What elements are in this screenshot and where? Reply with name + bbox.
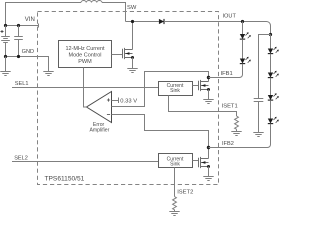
svg-text:TPS61150/51: TPS61150/51 [45, 175, 85, 182]
wire: PWM output to power FET gate [112, 54, 123, 56]
ground: FET1 [203, 100, 213, 104]
svg-text:PWM: PWM [78, 59, 92, 65]
wire: resistor2 to ground [174, 210, 176, 212]
svg-text:SEL2: SEL2 [14, 155, 28, 161]
LED D5 [268, 93, 279, 100]
capacitor C_in [14, 26, 23, 57]
svg-text:12-MHz Current: 12-MHz Current [65, 46, 105, 52]
node: IFB1 junction dot [207, 76, 210, 79]
LED D1 [240, 32, 251, 39]
wire: diode to IOUT and LED strings [164, 22, 271, 35]
svg-text:IFB2: IFB2 [222, 141, 234, 147]
0.33 V reference stub and tick [112, 98, 119, 104]
node: VIN junction dots [4, 24, 7, 27]
node: IFB2 junction dot [207, 146, 210, 149]
node: right branch tap [269, 33, 272, 36]
wire: FET2 source to ground [208, 167, 210, 177]
wire: FET2 drain to IFB2 [208, 148, 210, 159]
wire: ISET1 from sink1 [169, 96, 237, 117]
svg-text:Amplifier: Amplifier [89, 128, 109, 134]
node: power FET source/body dot [131, 56, 134, 59]
wire: resistor1 to ground [236, 129, 238, 131]
wire: sink2 to FET gate [193, 160, 199, 162]
resistor R_SET2 [173, 197, 177, 210]
current sink 1 block [159, 82, 193, 96]
svg-text:Sink: Sink [170, 161, 180, 167]
wire: GND rail [6, 57, 49, 72]
plus input mark [107, 98, 110, 101]
node: left LED string tap [241, 20, 244, 23]
ground: output capacitor [253, 133, 263, 137]
ground: power FET [127, 69, 137, 73]
wire: power FET drain to SW node [132, 22, 134, 50]
wire D5-D6 [270, 100, 272, 118]
svg-text:SW: SW [127, 5, 137, 11]
wire: inductor to SW pin [102, 3, 126, 22]
wire: SW to diode [126, 21, 159, 23]
wire: D2 to IFB1 line [209, 64, 243, 78]
battery plus sign [1, 30, 4, 33]
svg-text:ISET2: ISET2 [177, 190, 193, 196]
svg-text:ISET1: ISET1 [222, 103, 238, 109]
wire: ISET2 from sink2 [174, 168, 176, 197]
ground: R_SET2 [169, 212, 179, 216]
svg-text:Mode Control: Mode Control [68, 53, 101, 59]
svg-text:SEL1: SEL1 [15, 81, 29, 87]
IC boundary TPS61150/51 (dashed) [38, 12, 219, 185]
wire: IFB1 to chip edge [209, 77, 240, 79]
LED D4 [268, 71, 279, 78]
ground: chip internal GND [43, 72, 53, 76]
wire: error amp input from IFB1 node [112, 72, 209, 107]
wire between D1 and D2 [242, 39, 244, 58]
wire: D6 to IFB2 line [209, 124, 271, 148]
LED D3 [268, 47, 279, 54]
schottky diode (internal rectifier) [159, 19, 164, 24]
wire: error amp output to PWM [84, 68, 87, 108]
wire: battery top to top rail [6, 3, 82, 26]
node: FET1 source dot [207, 88, 210, 91]
wire: SEL1 line [12, 87, 159, 89]
wire: output capacitor branch [259, 35, 271, 99]
svg-text:IOUT: IOUT [223, 14, 237, 20]
ground: battery [0, 72, 10, 76]
resistor R_SET1 [235, 116, 239, 129]
wire: left LED string top [242, 22, 244, 35]
ground: R_SET1 [231, 132, 241, 136]
wire: power FET source to ground [132, 58, 134, 69]
wire: VIN rail [6, 24, 39, 28]
wire: error amp input from IFB2 node [112, 115, 209, 148]
power MOSFET [123, 48, 133, 59]
wire D3-D4 [270, 54, 272, 73]
wire: IFB2 to chip edge [209, 147, 240, 149]
error amplifier triangle [87, 92, 112, 123]
inductor L [81, 1, 102, 3]
svg-text:0.33 V: 0.33 V [120, 98, 137, 104]
wire: FET1 drain to IFB1 [208, 78, 210, 82]
svg-text:GND: GND [22, 49, 34, 55]
ground: FET2 [203, 177, 213, 181]
node: FET2 source dot [207, 165, 210, 168]
wire: FET1 source to ground [208, 90, 210, 100]
current sink 2 block [159, 154, 193, 168]
svg-text:VIN: VIN [25, 17, 35, 23]
current sink MOSFET 1 [199, 80, 209, 91]
capacitor C_out [254, 99, 264, 102]
svg-text:IFB1: IFB1 [221, 71, 233, 77]
wire: battery to ground stub [5, 57, 7, 72]
wire: SEL2 line [12, 161, 159, 163]
svg-text:Sink: Sink [170, 88, 180, 94]
wire: sink1 to FET gate [193, 85, 199, 87]
battery (input source) [1, 26, 10, 57]
LED D6 [268, 117, 279, 124]
wire: cap to ground [258, 102, 260, 133]
LED D2 [240, 57, 251, 64]
wire: right LED string [270, 35, 272, 49]
node: SW junction dot [131, 20, 134, 23]
minus input mark [107, 114, 110, 116]
PWM control block [59, 41, 112, 68]
node: GND junction dots [4, 55, 7, 58]
current sink MOSFET 2 [199, 157, 209, 168]
wire D4-D5 [270, 78, 272, 95]
